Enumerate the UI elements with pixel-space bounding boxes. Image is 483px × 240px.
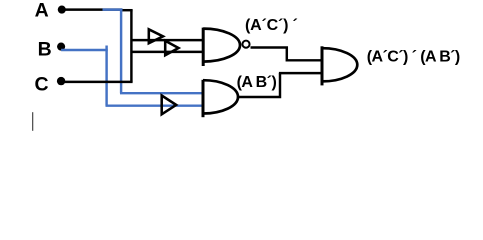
svg-text:(A´C´) ´: (A´C´) ´	[245, 17, 298, 34]
svg-text:B: B	[38, 39, 52, 61]
svg-text:C: C	[35, 73, 49, 95]
svg-text:(A B´): (A B´)	[237, 74, 277, 91]
svg-text:(A´C´) ´ (A B´): (A´C´) ´ (A B´)	[367, 49, 460, 66]
svg-text:A: A	[35, 0, 49, 22]
